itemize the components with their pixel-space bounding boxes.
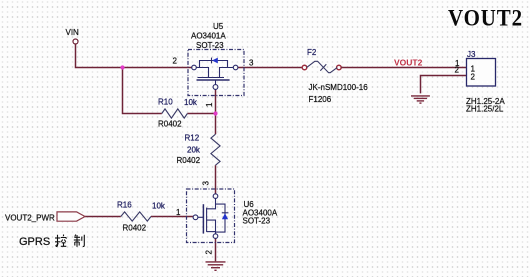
svg-text:VOUT2: VOUT2	[394, 58, 423, 68]
svg-text:1: 1	[176, 208, 181, 217]
svg-text:R16: R16	[117, 201, 132, 210]
svg-text:VOUT2_PWR: VOUT2_PWR	[5, 214, 55, 223]
svg-text:SOT-23: SOT-23	[196, 41, 224, 50]
svg-text:1: 1	[205, 102, 214, 107]
svg-text:F2: F2	[307, 48, 317, 57]
svg-text:2: 2	[205, 250, 214, 255]
svg-text:VOUT2: VOUT2	[448, 6, 523, 32]
svg-text:J3: J3	[467, 50, 476, 59]
svg-text:10k: 10k	[184, 98, 198, 107]
svg-text:U5: U5	[213, 22, 224, 31]
svg-text:GPRS: GPRS	[19, 236, 50, 248]
svg-text:R0402: R0402	[177, 156, 201, 165]
svg-text:R12: R12	[185, 134, 200, 143]
svg-text:SOT-23: SOT-23	[243, 217, 271, 226]
svg-text:3: 3	[249, 59, 254, 68]
svg-text:VIN: VIN	[66, 28, 80, 37]
svg-text:AO3401A: AO3401A	[191, 32, 226, 41]
svg-text:2: 2	[455, 66, 460, 75]
svg-text:2: 2	[471, 73, 476, 82]
svg-text:R0402: R0402	[158, 120, 182, 129]
svg-text:R0402: R0402	[123, 224, 147, 233]
svg-text:3: 3	[202, 181, 211, 186]
svg-text:20k: 20k	[187, 146, 201, 155]
svg-text:R10: R10	[158, 98, 173, 107]
svg-text:10k: 10k	[152, 202, 166, 211]
svg-text:F1206: F1206	[309, 95, 332, 104]
svg-text:JK-nSMD100-16: JK-nSMD100-16	[309, 83, 369, 92]
svg-text:ZH1.25/2L: ZH1.25/2L	[466, 105, 504, 114]
svg-text:2: 2	[173, 57, 178, 66]
